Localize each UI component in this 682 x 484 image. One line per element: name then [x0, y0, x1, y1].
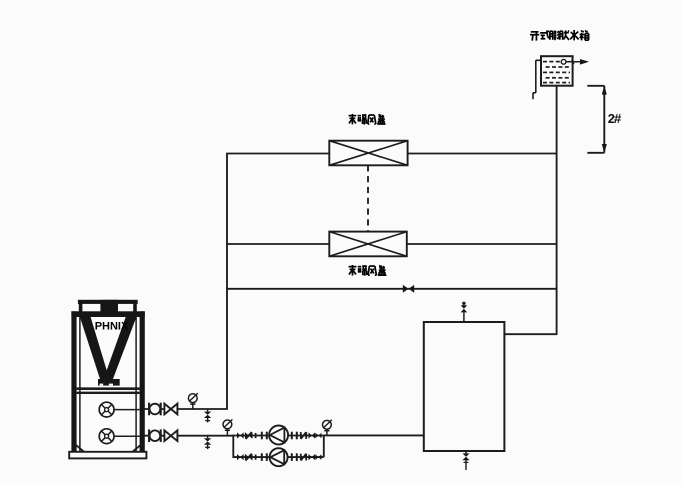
pressure gauge PG1 — [188, 393, 197, 409]
pressure gauge PG3 — [323, 420, 332, 436]
circulation pump P1 — [269, 426, 288, 445]
wire fan-coil-2 branch right — [407, 243, 558, 245]
svg-text:2#: 2# — [608, 111, 622, 126]
label 2# — [608, 111, 622, 126]
wire dashed connector between fan coils — [367, 165, 369, 231]
dimension bracket — [587, 85, 607, 153]
valve V1 (supply) — [164, 404, 177, 415]
label fan coil 1 text (末端风盘) — [349, 114, 386, 125]
wire supply riser (node A vertical) — [226, 154, 228, 410]
wire fan-coil-1 supply right — [408, 153, 558, 155]
wire pump branch lower — [233, 456, 324, 458]
overflow pipe — [533, 60, 542, 99]
compressor fan 1 in heat pump — [99, 402, 139, 417]
wire bypass line — [226, 288, 557, 290]
label expansion tank text (开式膨胀水箱) — [530, 30, 589, 41]
float ball — [561, 59, 566, 64]
label fan coil 2 text (末端风盘) — [349, 265, 387, 276]
air vent on tank top — [461, 302, 468, 323]
heat pump unit frame — [69, 300, 146, 459]
valve train pump branch 1 — [237, 432, 321, 440]
fan coil unit FC2 (末端风盘) — [329, 232, 407, 257]
wire fan-coil-2 branch left — [226, 243, 329, 245]
wire return riser (node B vertical) — [556, 85, 558, 334]
buffer tank — [424, 322, 505, 451]
compressor fan 2 in heat pump — [99, 429, 139, 444]
valve V2 (return) — [164, 430, 177, 441]
wire tank outlet to pumps — [324, 434, 425, 436]
valve train pump branch 2 — [237, 453, 321, 461]
wire heat pump return pipe — [144, 435, 233, 437]
pump manifold left — [232, 435, 234, 458]
open expansion water tank (开式膨胀水箱) — [541, 56, 573, 85]
fan coil unit FC1 (末端风盘) — [329, 141, 407, 166]
label PHNIX — [95, 321, 129, 333]
flexible connector FJ2 — [149, 429, 161, 442]
pressure gauge PG2 — [223, 419, 232, 435]
drain valve D2 — [204, 436, 211, 449]
svg-text:PHNIX: PHNIX — [95, 321, 129, 333]
drain valve on tank bottom — [462, 451, 469, 470]
wire pump branch upper — [233, 435, 323, 437]
corner braces — [75, 444, 143, 452]
drain valve D1 — [204, 409, 211, 422]
valve V5 bypass (solid) — [403, 285, 414, 293]
circulation pump P2 — [270, 448, 288, 466]
pump manifold right — [323, 435, 325, 458]
flexible connector FJ1 — [149, 403, 161, 416]
wire riser-to-tank elbow — [504, 333, 557, 335]
wire heat pump supply pipe — [144, 408, 228, 410]
make-up water arrow — [566, 59, 589, 65]
wire fan-coil-1 supply left — [226, 153, 329, 155]
